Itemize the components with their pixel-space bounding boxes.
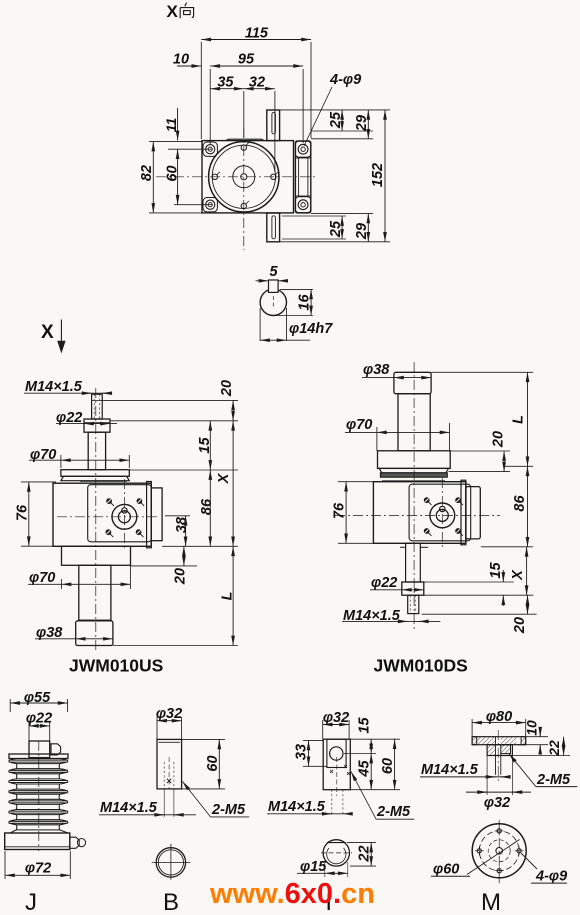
- svg-text:4-φ9: 4-φ9: [329, 72, 361, 88]
- svg-text:60: 60: [205, 755, 221, 771]
- svg-text:X: X: [41, 322, 54, 343]
- svg-text:M14×1.5: M14×1.5: [268, 799, 326, 815]
- svg-text:38: 38: [174, 516, 190, 533]
- svg-text:X: X: [167, 2, 179, 21]
- svg-text:22: 22: [546, 740, 562, 757]
- svg-text:95: 95: [238, 51, 255, 67]
- svg-text:φ32: φ32: [323, 710, 349, 726]
- svg-text:10: 10: [524, 720, 540, 736]
- svg-text:25: 25: [328, 220, 344, 238]
- svg-text:76: 76: [15, 504, 31, 521]
- svg-text:15: 15: [357, 717, 373, 734]
- svg-text:32: 32: [249, 75, 265, 91]
- svg-text:φ15: φ15: [300, 859, 327, 875]
- svg-text:15: 15: [488, 562, 504, 579]
- svg-text:10: 10: [173, 52, 189, 68]
- svg-text:152: 152: [370, 163, 386, 187]
- svg-text:φ60: φ60: [433, 862, 459, 878]
- svg-text:JWM010DS: JWM010DS: [374, 656, 468, 676]
- svg-text:φ14h7: φ14h7: [289, 321, 333, 337]
- svg-text:29: 29: [354, 223, 370, 240]
- svg-text:φ72: φ72: [25, 861, 51, 877]
- svg-text:82: 82: [139, 165, 155, 181]
- svg-text:45: 45: [357, 760, 373, 778]
- svg-text:L: L: [511, 415, 527, 424]
- svg-text:J: J: [25, 889, 37, 915]
- svg-text:60: 60: [165, 165, 181, 181]
- svg-text:4-φ9: 4-φ9: [535, 869, 567, 885]
- svg-text:29: 29: [354, 115, 370, 132]
- svg-text:2-M5: 2-M5: [211, 802, 246, 818]
- svg-text:φ70: φ70: [29, 570, 55, 586]
- svg-text:33: 33: [294, 744, 310, 760]
- svg-text:2-M5: 2-M5: [536, 772, 571, 788]
- svg-text:11: 11: [163, 118, 179, 133]
- svg-text:φ70: φ70: [346, 417, 372, 433]
- svg-text:φ22: φ22: [371, 575, 397, 591]
- svg-text:φ22: φ22: [26, 711, 52, 727]
- svg-text:φ32: φ32: [156, 706, 182, 722]
- svg-text:22: 22: [357, 845, 373, 862]
- svg-text:φ32: φ32: [484, 795, 510, 811]
- svg-text:20: 20: [512, 617, 528, 634]
- svg-text:60: 60: [380, 758, 396, 774]
- svg-text:JWM010US: JWM010US: [69, 656, 163, 676]
- svg-text:M14×1.5: M14×1.5: [100, 800, 158, 816]
- svg-text:5: 5: [269, 264, 278, 280]
- svg-text:20: 20: [491, 431, 507, 448]
- svg-text:76: 76: [332, 502, 348, 519]
- svg-text:www.6x0.cn: www.6x0.cn: [209, 878, 375, 910]
- svg-text:φ38: φ38: [363, 362, 390, 378]
- svg-text:X: X: [216, 472, 232, 484]
- svg-text:25: 25: [328, 111, 344, 129]
- svg-text:16: 16: [297, 294, 313, 311]
- svg-text:20: 20: [219, 380, 235, 397]
- svg-text:M14×1.5: M14×1.5: [421, 762, 479, 778]
- svg-text:φ55: φ55: [24, 690, 51, 706]
- svg-text:35: 35: [217, 75, 234, 91]
- svg-text:20: 20: [173, 568, 189, 585]
- svg-text:86: 86: [199, 498, 215, 515]
- svg-text:X: X: [510, 569, 526, 581]
- svg-text:M: M: [481, 889, 501, 915]
- svg-text:86: 86: [512, 495, 528, 512]
- svg-text:2-M5: 2-M5: [376, 804, 411, 820]
- svg-text:B: B: [163, 889, 179, 915]
- svg-text:M14×1.5: M14×1.5: [25, 379, 83, 395]
